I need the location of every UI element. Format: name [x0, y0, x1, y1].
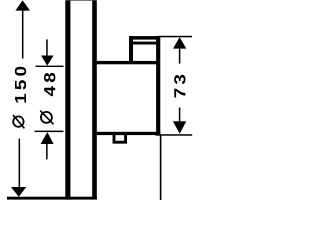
- wall plate top edge: [66, 0, 97, 1]
- wall plate right face: [92, 0, 97, 199]
- dimension 150 arrowhead down: [11, 187, 26, 197]
- digits 150: [15, 67, 26, 103]
- dimension 73 arrowhead down: [173, 121, 186, 134]
- dimension 73 line lower segment: [179, 108, 181, 122]
- dimension 48 arrowhead up: [41, 132, 54, 144]
- digits 48: [44, 73, 55, 96]
- dimension 150 line lower segment: [19, 139, 21, 188]
- valve body bottom edge: [96, 132, 160, 135]
- wall plate left face: [65, 0, 70, 199]
- white background: [0, 0, 200, 200]
- dimension 48 upper extension tick: [36, 66, 64, 67]
- vertical extension line below body: [160, 135, 162, 200]
- dimension 150 label: [13, 67, 26, 129]
- handle top edge: [129, 36, 159, 40]
- dimension 48 arrowhead down: [41, 56, 54, 66]
- dimension 48 line lower segment: [46, 144, 48, 159]
- dimension 150 line upper segment: [22, 10, 24, 59]
- dimension 73 arrowhead up: [173, 37, 186, 48]
- dimension 73 line upper segment: [179, 49, 181, 64]
- handle inner parting line: [133, 42, 156, 45]
- diameter symbol of 48 label: [41, 112, 52, 123]
- handle left edge: [129, 36, 133, 63]
- dimension 73 upper extension line: [158, 36, 193, 38]
- outlet stub square below body: [114, 134, 126, 143]
- dimension 48 label: [40, 73, 55, 124]
- valve body top edge: [96, 61, 160, 64]
- dimension 73 label: [174, 75, 185, 98]
- valve body right edge: [156, 36, 160, 135]
- dimension 48 lower extension tick: [35, 131, 64, 133]
- diameter symbol of 150 label: [13, 116, 23, 126]
- dimension 48 line upper segment: [46, 39, 48, 55]
- wall plate bottom edge extended as dimension extension line: [7, 197, 97, 200]
- dimension 150 arrowhead up: [15, 0, 30, 10]
- dimension 73 lower extension line: [156, 134, 193, 136]
